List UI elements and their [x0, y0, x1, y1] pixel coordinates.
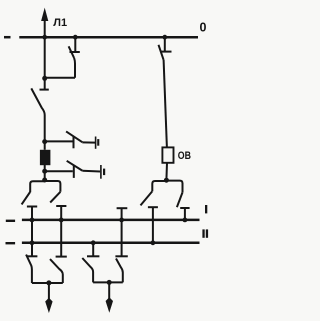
svg-text:ОВ: ОВ — [178, 150, 191, 162]
svg-text:Л1: Л1 — [53, 17, 67, 29]
svg-text:0: 0 — [200, 20, 207, 34]
